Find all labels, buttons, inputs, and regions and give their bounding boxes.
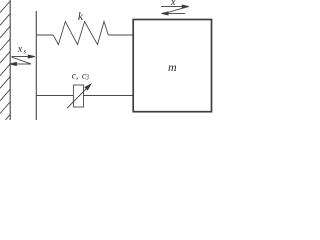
mass displacement double arrow	[161, 5, 189, 15]
wall hatching	[0, 1, 10, 126]
variable damper diagonal arrow	[67, 84, 91, 108]
damper lead-in wire	[36, 95, 73, 97]
svg-text:xs: xs	[17, 44, 27, 56]
support displacement double arrow	[10, 55, 35, 65]
fixed wall	[9, 0, 11, 120]
mass m block	[133, 20, 211, 112]
spring k lead-out wire	[108, 34, 132, 36]
base frame (moving support)	[35, 11, 37, 120]
svg-text:c, c3: c, c3	[72, 72, 90, 82]
svg-text:m: m	[168, 60, 177, 74]
spring k zigzag	[53, 22, 108, 45]
variable damper box	[73, 85, 83, 107]
spring k lead-in wire	[36, 34, 53, 36]
damper lead-out wire	[84, 95, 133, 97]
svg-text:k: k	[78, 11, 84, 23]
